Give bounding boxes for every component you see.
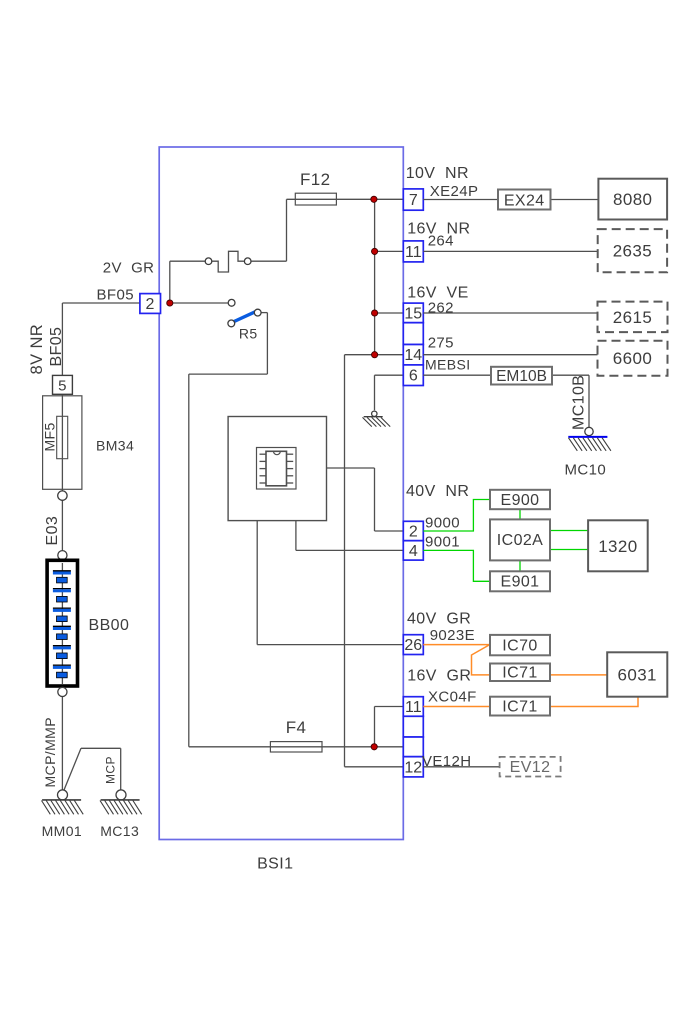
svg-text:MC10: MC10 <box>565 461 607 478</box>
svg-text:2: 2 <box>146 296 155 313</box>
svg-text:BF05: BF05 <box>48 327 65 367</box>
svg-text:264: 264 <box>428 232 454 249</box>
svg-text:E03: E03 <box>44 516 61 546</box>
svg-text:26: 26 <box>404 637 422 654</box>
svg-text:7: 7 <box>409 192 418 209</box>
svg-text:2: 2 <box>409 524 418 541</box>
svg-text:E900: E900 <box>501 492 540 509</box>
svg-text:40V GR: 40V GR <box>407 610 471 627</box>
svg-text:10V NR: 10V NR <box>406 165 469 182</box>
svg-text:2V GR: 2V GR <box>103 260 155 277</box>
svg-text:IC71: IC71 <box>502 698 537 715</box>
svg-text:BB00: BB00 <box>89 617 130 634</box>
svg-text:6031: 6031 <box>617 666 656 685</box>
svg-text:5: 5 <box>58 378 67 395</box>
svg-text:BM34: BM34 <box>96 438 134 454</box>
svg-text:16V GR: 16V GR <box>407 667 471 684</box>
svg-text:12: 12 <box>404 759 422 776</box>
svg-text:6600: 6600 <box>613 349 652 368</box>
svg-text:6: 6 <box>409 368 418 385</box>
svg-text:MCP/MMP: MCP/MMP <box>42 717 58 787</box>
svg-text:275: 275 <box>428 334 454 351</box>
svg-text:9001: 9001 <box>425 533 460 550</box>
svg-text:MF5: MF5 <box>42 422 58 451</box>
svg-text:1320: 1320 <box>598 537 637 556</box>
svg-text:EV12: EV12 <box>510 759 551 776</box>
svg-text:XE24P: XE24P <box>430 183 479 200</box>
svg-text:15: 15 <box>404 305 422 322</box>
svg-text:11: 11 <box>405 244 422 261</box>
svg-text:IC70: IC70 <box>502 637 537 654</box>
svg-text:IC02A: IC02A <box>497 532 543 549</box>
svg-text:40V NR: 40V NR <box>406 483 469 500</box>
svg-text:E901: E901 <box>501 574 540 591</box>
svg-text:EM10B: EM10B <box>496 368 547 385</box>
svg-text:4: 4 <box>409 543 418 560</box>
svg-text:14: 14 <box>404 347 422 364</box>
svg-text:MC13: MC13 <box>100 823 139 839</box>
svg-text:F12: F12 <box>300 170 331 189</box>
svg-text:9000: 9000 <box>425 514 460 531</box>
svg-text:MC10B: MC10B <box>571 375 588 430</box>
svg-text:262: 262 <box>428 300 454 317</box>
svg-text:IC71: IC71 <box>502 665 537 682</box>
svg-text:BSI1: BSI1 <box>257 856 293 873</box>
svg-text:XC04F: XC04F <box>428 688 477 705</box>
svg-text:2615: 2615 <box>613 308 652 327</box>
svg-text:11: 11 <box>405 699 422 716</box>
svg-text:8V NR: 8V NR <box>28 324 46 375</box>
svg-text:MCP: MCP <box>104 756 118 784</box>
svg-text:R5: R5 <box>239 325 258 341</box>
svg-text:8080: 8080 <box>613 190 652 209</box>
svg-text:BF05: BF05 <box>97 286 134 303</box>
svg-text:2635: 2635 <box>613 242 652 261</box>
svg-text:EX24: EX24 <box>504 192 545 209</box>
svg-text:9023E: 9023E <box>430 627 475 644</box>
svg-text:MM01: MM01 <box>42 823 83 839</box>
svg-text:MEBSI: MEBSI <box>425 356 471 372</box>
svg-text:F4: F4 <box>286 718 307 737</box>
svg-text:VE12H: VE12H <box>422 753 472 770</box>
